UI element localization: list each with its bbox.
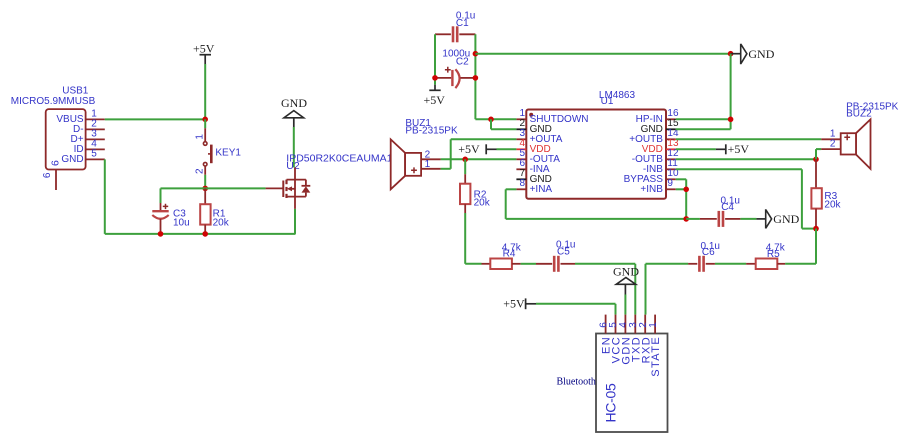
capacitor C2 1000u bbox=[435, 48, 475, 88]
junction VBUS/+5V/KEY1 bbox=[202, 117, 208, 123]
U1 pin 16 HP-IN bbox=[666, 118, 676, 120]
wire USB GND down bbox=[104, 159, 106, 234]
wire input row right bbox=[785, 263, 816, 265]
switch KEY1 bbox=[195, 119, 242, 188]
USB1 pin 3 D+ bbox=[86, 138, 105, 140]
U1 pin 2 GND bbox=[516, 128, 526, 130]
wire gate lead bbox=[266, 187, 284, 189]
resistor R1 20k bbox=[200, 188, 230, 234]
wire pin8 +INA bbox=[506, 188, 517, 190]
op-amp U1 LM4863 bbox=[516, 90, 679, 199]
svg-text:GND: GND bbox=[281, 96, 307, 110]
svg-text:+5V: +5V bbox=[458, 142, 480, 156]
svg-text:8: 8 bbox=[519, 178, 525, 189]
junction C2 left bbox=[432, 75, 438, 81]
svg-text:6: 6 bbox=[42, 172, 53, 178]
svg-text:KEY1: KEY1 bbox=[215, 148, 241, 159]
junction top rail bbox=[473, 51, 479, 57]
HC-05 pin 4 GDN bbox=[624, 315, 626, 334]
BUZ1 pin 2 bbox=[421, 158, 441, 160]
wire VBUS to +5V bbox=[105, 118, 205, 120]
HC-05 pin 6 EN bbox=[605, 315, 607, 334]
U1 pin 7 GND bbox=[516, 178, 526, 180]
svg-text:+INB: +INB bbox=[640, 184, 663, 195]
wire C1 left vertical bbox=[434, 34, 436, 84]
wire ground rail left bbox=[105, 233, 296, 235]
BUZ2 pin 1 bbox=[821, 138, 841, 140]
USB1 pin 2 D- bbox=[86, 128, 105, 130]
HC-05 pin 2 RXD bbox=[644, 315, 646, 334]
capacitor C4 0.1u bbox=[686, 196, 740, 227]
wire gate row bbox=[161, 187, 266, 189]
svg-text:Bluetooth: Bluetooth bbox=[556, 377, 595, 388]
wire pin14 +OUTB to BUZ2 bbox=[676, 138, 821, 140]
resistor R4 4.7k bbox=[482, 243, 522, 269]
wire GND to HC-05 pin4 bbox=[624, 295, 626, 315]
HC-05 pin 3 TXD bbox=[634, 315, 636, 334]
U1 pin 14 +OUTB bbox=[666, 138, 676, 140]
wire +5V to pin4 bbox=[497, 148, 517, 150]
ground GND flag right bbox=[756, 209, 799, 228]
capacitor C3 10u bbox=[152, 188, 189, 234]
wire R4 to C5 bbox=[521, 263, 536, 265]
wire R3 junction down bbox=[815, 229, 817, 264]
resistor R3 20k bbox=[811, 159, 841, 228]
svg-text:+INA: +INA bbox=[530, 184, 553, 195]
wire pin10 BYPASS bbox=[676, 178, 686, 180]
svg-text:6: 6 bbox=[49, 160, 61, 166]
USB1 pin 4 ID bbox=[86, 148, 105, 150]
wire pin5 -OUTA bbox=[441, 158, 517, 160]
capacitor C5 0.1u bbox=[536, 240, 575, 272]
power +5V at HC-05 VCC bbox=[503, 296, 536, 310]
junction KEY1/R1/gate bbox=[202, 186, 208, 192]
wire pin9 +INB bbox=[676, 188, 686, 190]
capacitor C6 0.1u bbox=[688, 241, 720, 272]
U1 pin 1 SHUTDOWN bbox=[516, 118, 526, 120]
wire BUZ1 pin1 to +OUTA bbox=[441, 168, 451, 170]
svg-text:U1: U1 bbox=[601, 96, 614, 107]
U1 pin 5 -OUTA bbox=[516, 158, 526, 160]
wire C4 to GND flag bbox=[740, 218, 756, 220]
resistor R5 4.7k bbox=[746, 243, 786, 269]
USB1 pin 1 VBUS bbox=[86, 118, 105, 120]
junction -OUTA/R2 bbox=[462, 157, 468, 163]
wire -OUTB jog to BUZ2 pin2 bbox=[815, 149, 817, 159]
transistor U2 IPD50R2K0CEAUMA1 bbox=[283, 152, 392, 209]
svg-text:1: 1 bbox=[425, 159, 431, 170]
junction C3/ground rail bbox=[158, 231, 164, 237]
wire GND to U2 drain bbox=[293, 127, 295, 167]
speaker BUZ1 PB-2315PK bbox=[391, 118, 458, 189]
resistor R2 20k bbox=[460, 159, 491, 213]
wire RXD to C6 bbox=[646, 263, 689, 265]
svg-text:C2: C2 bbox=[456, 56, 469, 67]
svg-text:5: 5 bbox=[91, 148, 97, 159]
junction -OUTB/R3 bbox=[813, 157, 819, 163]
wire top ground rail bbox=[475, 53, 730, 55]
power +5V top-left bbox=[193, 42, 215, 64]
U1 pin 4 VDD bbox=[516, 148, 526, 150]
wire C6 to R5 bbox=[715, 263, 746, 265]
power +5V below C2 bbox=[423, 85, 445, 108]
svg-text:20k: 20k bbox=[474, 198, 491, 209]
svg-text:+5V: +5V bbox=[423, 93, 445, 107]
junction HP-IN rail bbox=[728, 51, 734, 57]
speaker BUZ2 PB-2315PK bbox=[821, 102, 898, 169]
capacitor C1 0.1u bbox=[435, 11, 475, 43]
wire bypass rail bbox=[506, 218, 687, 220]
wire pin16 HP-IN bbox=[676, 118, 731, 120]
U1 pin 3 +OUTA bbox=[516, 138, 526, 140]
module HC-05 Bluetooth bbox=[556, 315, 667, 432]
svg-text:GND: GND bbox=[61, 154, 83, 165]
wire U2 source to ground rail bbox=[294, 209, 296, 234]
U1 pin 11 -INB bbox=[666, 168, 676, 170]
svg-text:1: 1 bbox=[195, 134, 206, 140]
svg-text:1: 1 bbox=[648, 322, 659, 328]
BUZ2 pin 2 bbox=[821, 148, 841, 150]
svg-text:20k: 20k bbox=[824, 199, 841, 210]
USB1 pin 6 shield bbox=[55, 170, 57, 191]
ground GND above U2 bbox=[281, 96, 307, 127]
HC-05 pin 5 VCC bbox=[615, 315, 617, 334]
USB1 pin 5 GND bbox=[86, 158, 105, 160]
svg-text:10u: 10u bbox=[173, 217, 190, 228]
svg-text:GND: GND bbox=[773, 212, 799, 226]
svg-text:IPD50R2K0CEAUMA1: IPD50R2K0CEAUMA1 bbox=[286, 152, 392, 164]
wire C5 to TXD bbox=[575, 263, 635, 265]
junction C2 right bbox=[473, 75, 479, 81]
wire R2 down to input row bbox=[464, 213, 466, 264]
wire pin12 -OUTB bbox=[676, 158, 816, 160]
U1 pin 8 +INA bbox=[516, 188, 526, 190]
power +5V at pin4 VDD bbox=[458, 142, 496, 156]
HC-05 pin 1 STATE bbox=[654, 315, 656, 334]
wire to pin2 GND bbox=[490, 119, 492, 129]
svg-text:+5V: +5V bbox=[193, 42, 215, 56]
power +5V at pin13 VDD bbox=[676, 142, 750, 156]
svg-text:GND: GND bbox=[613, 264, 639, 278]
svg-text:20k: 20k bbox=[213, 217, 230, 228]
svg-text:GND: GND bbox=[748, 47, 774, 61]
svg-text:+5V: +5V bbox=[728, 142, 750, 156]
svg-text:STATE: STATE bbox=[650, 336, 662, 377]
U1 pin 15 GND bbox=[666, 128, 676, 130]
junction R3/-INB bbox=[813, 226, 819, 232]
junction bypass rail/C4 bbox=[683, 216, 689, 222]
wire C1 right vertical bbox=[474, 34, 476, 119]
U1 pin 10 BYPASS bbox=[666, 178, 676, 180]
svg-text:2: 2 bbox=[195, 168, 206, 174]
wire C-rail to pin1 bbox=[475, 118, 516, 120]
U1 pin 9 +INB bbox=[666, 188, 676, 190]
svg-text:U2: U2 bbox=[286, 160, 300, 172]
wire HP-IN rail vertical bbox=[730, 54, 732, 130]
U1 pin 13 VDD bbox=[666, 148, 676, 150]
wire pin11 -INB bbox=[676, 168, 802, 170]
connector USB1 MICRO5.9MMUSB bbox=[11, 86, 105, 190]
svg-text:HC-05: HC-05 bbox=[603, 383, 619, 422]
junction R1/ground rail bbox=[202, 231, 208, 237]
junction pin1/pin2 bbox=[488, 117, 494, 123]
wire +5V to VBUS junction bbox=[204, 64, 206, 119]
junction pin9 bbox=[683, 187, 689, 193]
ground GND flag top-right bbox=[731, 44, 775, 65]
svg-text:PB-2315PK: PB-2315PK bbox=[405, 125, 458, 136]
svg-text:BUZ2: BUZ2 bbox=[846, 108, 872, 119]
wire pin15 GND bbox=[676, 128, 731, 130]
U1 pin 6 -INA bbox=[516, 168, 526, 170]
svg-text:MICRO5.9MMUSB: MICRO5.9MMUSB bbox=[11, 96, 96, 107]
wire pin3 +OUTA bbox=[451, 138, 517, 140]
svg-text:9: 9 bbox=[667, 178, 673, 189]
svg-text:2: 2 bbox=[830, 139, 836, 150]
junction pin16 bbox=[728, 117, 734, 123]
svg-text:+5V: +5V bbox=[503, 296, 525, 310]
BUZ1 pin 1 bbox=[421, 168, 441, 170]
wire +5V to VCC bbox=[536, 303, 616, 305]
ground GND above HC-05 bbox=[613, 264, 639, 294]
U1 pin 12 -OUTB bbox=[666, 158, 676, 160]
